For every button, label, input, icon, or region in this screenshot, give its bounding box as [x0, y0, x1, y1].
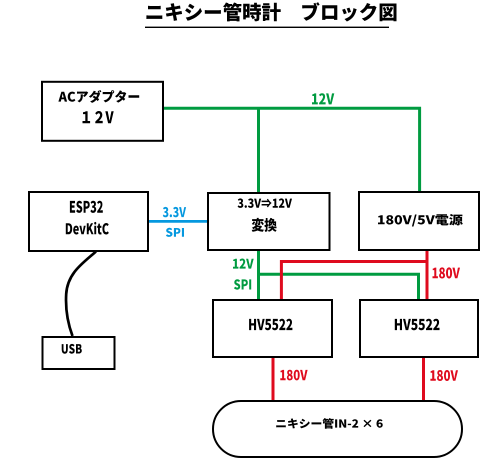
wire 12V/SPI green: converter to HV5522s — [259, 250, 419, 300]
box HV5522 right — [360, 300, 478, 357]
box HV5522 left — [213, 300, 332, 357]
box AC adapter 12V — [42, 82, 163, 141]
label 180V red bottom-left — [280, 370, 307, 381]
label 180V red right — [433, 267, 461, 278]
wire USB curve: ESP32 to USB — [66, 252, 96, 337]
box 180V/5V power supply — [359, 192, 479, 250]
wire 3.3V/SPI blue: ESP32 to converter — [148, 220, 208, 223]
label SPI blue — [166, 228, 184, 237]
label 12V green mid — [233, 259, 254, 269]
box 3.3V to 12V converter — [208, 193, 330, 250]
wire 180V red: left HV5522 to nixie tubes — [272, 358, 275, 401]
wire 180V red: right HV5522 to nixie tubes — [422, 358, 425, 401]
label SPI green — [234, 279, 251, 290]
label 12V green top — [312, 93, 334, 104]
wire 12V green: AC adapter to converters — [163, 108, 420, 192]
title ニキシー管時計 ブロック図 — [146, 2, 396, 21]
node nixie tubes IN-2 x6 (stadium) — [213, 401, 462, 457]
box ESP32 DevKitC — [29, 192, 148, 251]
label 3.3V blue — [163, 207, 186, 217]
label 180V red bottom-right — [430, 370, 458, 381]
title underline — [145, 27, 389, 28]
box USB — [43, 337, 115, 369]
wire 180V red: PSU to HV5522s — [281, 251, 427, 300]
